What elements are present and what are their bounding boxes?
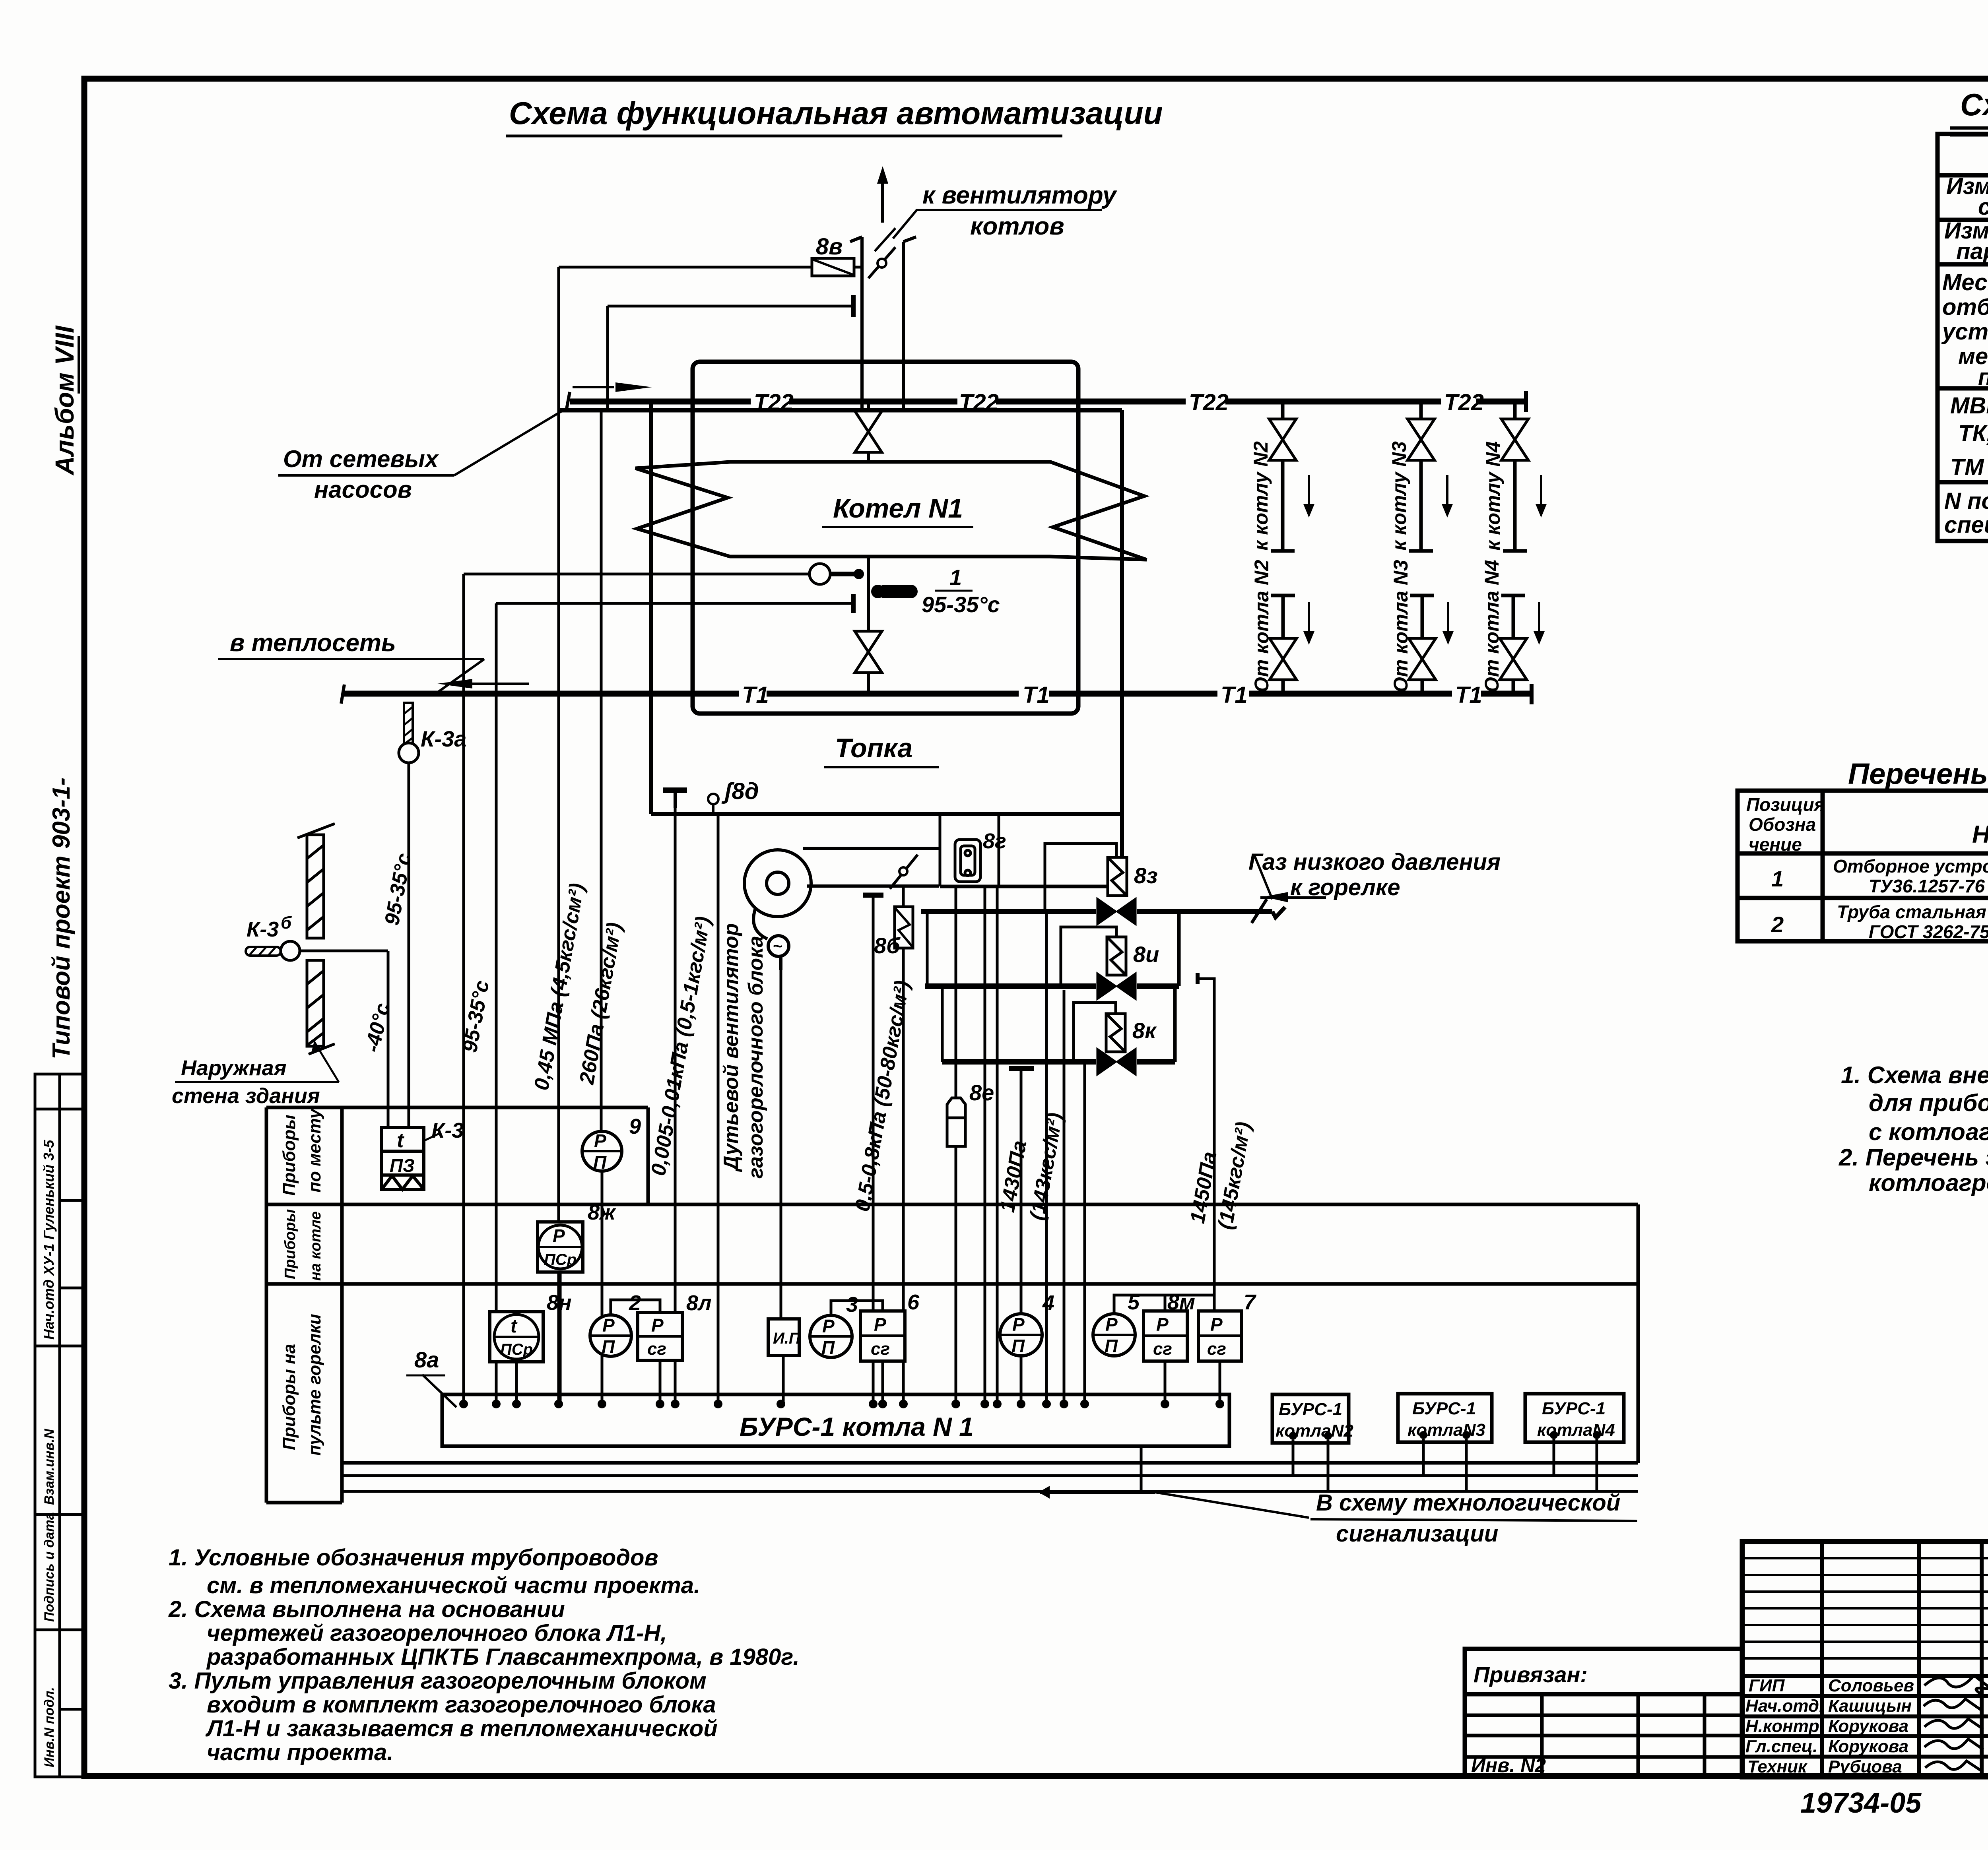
svg-text:Техник: Техник [1747, 1757, 1808, 1776]
svg-text:8а: 8а [414, 1347, 439, 1372]
svg-text:разработанных ЦПКТБ Главсанте: разработанных ЦПКТБ Главсантехпрома, в 1… [206, 1644, 800, 1670]
svg-text:Р: Р [1012, 1314, 1025, 1335]
svg-text:по месту: по месту [305, 1108, 324, 1193]
svg-text:ГИП: ГИП [1749, 1676, 1785, 1695]
svg-text:К-3: К-3 [431, 1119, 464, 1142]
svg-text:пульте горелки: пульте горелки [305, 1314, 324, 1456]
svg-text:сигнализации: сигнализации [1336, 1521, 1498, 1547]
svg-text:В схему технологической: В схему технологической [1316, 1490, 1620, 1516]
svg-text:2. Перечень элементов привед: 2. Перечень элементов приведен для одног… [1839, 1144, 1988, 1171]
svg-text:Нач.отд ХУ-1 Гуленький 3-5: Нач.отд ХУ-1 Гуленький 3-5 [41, 1140, 57, 1340]
svg-text:Р: Р [1105, 1314, 1118, 1335]
svg-text:8г: 8г [983, 829, 1006, 853]
svg-text:П: П [821, 1337, 835, 1358]
svg-text:газогорелочного блока: газогорелочного блока [744, 936, 767, 1179]
svg-text:Р: Р [1210, 1314, 1223, 1335]
svg-text:3: 3 [846, 1293, 858, 1317]
svg-text:Отборное устройство разрежения: Отборное устройство разрежения 20 [1833, 856, 1988, 877]
svg-text:Корукова: Корукова [1828, 1716, 1908, 1736]
svg-text:Гл.спец.: Гл.спец. [1745, 1737, 1817, 1756]
svg-text:Взам.инв.N: Взам.инв.N [42, 1428, 57, 1505]
svg-text:Т1: Т1 [1023, 682, 1050, 708]
svg-text:Перечень элементов: Перечень элементов [1848, 757, 1988, 790]
svg-text:Приборы на: Приборы на [280, 1344, 299, 1450]
svg-text:Схема внешних проводок: Схема внешних проводок [1960, 87, 1988, 122]
svg-text:~: ~ [773, 937, 783, 955]
svg-text:Инв.N подл.: Инв.N подл. [42, 1687, 57, 1767]
svg-text:к котлу N3: к котлу N3 [1388, 441, 1410, 551]
svg-text:см. в тепломеханической част: см. в тепломеханической части проекта. [207, 1573, 700, 1598]
svg-text:9: 9 [629, 1115, 641, 1138]
svg-text:8б: 8б [874, 933, 901, 958]
svg-text:БУРС-1: БУРС-1 [1542, 1399, 1606, 1418]
svg-text:б: б [281, 913, 292, 933]
svg-text:Р: Р [822, 1316, 835, 1336]
svg-text:Схема функциональная автоматиз: Схема функциональная автоматизации [509, 95, 1163, 131]
svg-text:котлаN4: котлаN4 [1537, 1420, 1615, 1440]
svg-text:N позиции по: N позиции по [1944, 488, 1988, 514]
svg-text:Н.контр.: Н.контр. [1745, 1716, 1824, 1736]
svg-text:сг: сг [1207, 1339, 1226, 1359]
svg-text:с котлоагрегатом.: с котлоагрегатом. [1869, 1119, 1988, 1145]
svg-text:ТУ36.1257-76 (ТК4-128-68): ТУ36.1257-76 (ТК4-128-68) [1869, 876, 1988, 896]
svg-text:ТК,: ТК, [1958, 421, 1988, 446]
svg-text:Рубцова: Рубцова [1828, 1757, 1902, 1776]
svg-text:8в: 8в [816, 234, 843, 260]
svg-text:2. Схема выполнена на основ: 2. Схема выполнена на основании [168, 1596, 565, 1622]
svg-text:в теплосеть: в теплосеть [230, 629, 396, 657]
svg-text:Наименование: Наименование [1972, 821, 1988, 848]
svg-text:Т22: Т22 [959, 390, 999, 415]
svg-text:От котла N3: От котла N3 [1390, 560, 1412, 692]
svg-text:для приборов, не поставляемых: для приборов, не поставляемых в комплект… [1869, 1090, 1988, 1116]
svg-text:От сетевых: От сетевых [283, 446, 439, 472]
svg-text:отборного: отборного [1942, 294, 1988, 320]
svg-text:стена здания: стена здания [172, 1084, 320, 1108]
svg-text:Р: Р [1156, 1314, 1169, 1335]
svg-text:Позиция: Позиция [1746, 794, 1825, 815]
svg-text:насосов: насосов [314, 476, 412, 503]
svg-text:Т1: Т1 [1221, 682, 1248, 708]
svg-text:Топка: Топка [835, 733, 912, 763]
svg-text:МВН,: МВН, [1950, 393, 1988, 419]
svg-text:Р: Р [651, 1315, 664, 1336]
svg-text:к горелке: к горелке [1290, 875, 1400, 900]
svg-text:Подпись и дата: Подпись и дата [42, 1512, 57, 1622]
svg-text:БУРС-1 котла N 1: БУРС-1 котла N 1 [740, 1412, 974, 1441]
svg-text:К-3а: К-3а [421, 726, 466, 751]
svg-text:7: 7 [1244, 1290, 1257, 1314]
svg-text:Инв. N2: Инв. N2 [1471, 1754, 1546, 1776]
svg-text:П: П [1105, 1336, 1118, 1356]
svg-text:От котла N4: От котла N4 [1481, 560, 1503, 692]
svg-text:Р: Р [602, 1315, 615, 1336]
svg-text:Место установки: Место установки [1942, 270, 1988, 295]
svg-text:ʃ8д: ʃ8д [721, 778, 759, 804]
svg-text:1: 1 [949, 565, 962, 590]
svg-text:Т1: Т1 [742, 682, 769, 708]
svg-text:части проекта.: части проекта. [207, 1739, 393, 1765]
svg-text:ГОСТ 3262-75: ГОСТ 3262-75 [1869, 921, 1988, 942]
svg-text:Наружная: Наружная [181, 1056, 287, 1080]
svg-text:параметр: параметр [1956, 239, 1988, 264]
svg-text:на котле: на котле [307, 1211, 324, 1281]
svg-text:Р: Р [553, 1226, 565, 1246]
svg-text:среда: среда [1978, 194, 1988, 220]
svg-text:8л: 8л [686, 1291, 712, 1315]
svg-text:Р: Р [874, 1314, 886, 1335]
svg-text:Приборы: Приборы [282, 1209, 299, 1279]
svg-text:К-3: К-3 [247, 917, 279, 941]
svg-text:Обозна: Обозна [1749, 814, 1816, 835]
svg-text:Приборы: Приборы [280, 1115, 299, 1196]
svg-text:Т1: Т1 [1455, 682, 1482, 708]
svg-text:чение: чение [1749, 834, 1802, 855]
svg-text:95-35°с: 95-35°с [922, 592, 1000, 617]
svg-text:сг: сг [1153, 1339, 1172, 1359]
svg-text:8и: 8и [1133, 942, 1159, 967]
svg-text:t: t [511, 1316, 518, 1337]
svg-text:Т22: Т22 [754, 390, 794, 415]
svg-text:входит в комплект газогорел: входит в комплект газогорелочного блока [207, 1692, 716, 1718]
svg-text:Корукова: Корукова [1828, 1737, 1908, 1756]
svg-text:устройства или: устройства или [1941, 319, 1988, 345]
svg-text:ПЗ: ПЗ [390, 1155, 415, 1176]
svg-text:П: П [593, 1152, 607, 1173]
svg-text:1. Схема внешних проводок в: 1. Схема внешних проводок выполнена [1841, 1062, 1988, 1088]
svg-text:чертежей газогорелочного бло: чертежей газогорелочного блока Л1-Н, [207, 1620, 667, 1646]
svg-text:8ж: 8ж [588, 1200, 617, 1224]
svg-text:сг: сг [871, 1339, 890, 1359]
svg-text:3. Пульт управления газогоре: 3. Пульт управления газогорелочным блоко… [169, 1668, 707, 1694]
svg-text:8е: 8е [969, 1080, 994, 1105]
svg-text:Котел N1: Котел N1 [833, 493, 963, 524]
svg-text:Привязан:: Привязан: [1474, 1662, 1588, 1687]
svg-text:Л1-Н и заказывается в тепл: Л1-Н и заказывается в тепломеханической [205, 1716, 718, 1741]
svg-text:спецификации: спецификации [1944, 512, 1988, 538]
svg-text:Нач.отд.: Нач.отд. [1745, 1696, 1824, 1716]
svg-text:сг: сг [647, 1339, 666, 1359]
svg-text:прибора: прибора [1978, 364, 1988, 390]
svg-text:Р: Р [594, 1131, 606, 1151]
svg-text:котлоагрегата.: котлоагрегата. [1869, 1169, 1988, 1196]
svg-text:1: 1 [1771, 866, 1784, 891]
svg-text:8з: 8з [1134, 863, 1158, 888]
svg-text:ПСр: ПСр [544, 1251, 577, 1268]
svg-text:ТМ: ТМ [1950, 454, 1984, 480]
svg-text:котлаN2: котлаN2 [1276, 1421, 1353, 1441]
svg-text:Типовой проект 903-1-: Типовой проект 903-1- [48, 778, 75, 1059]
svg-text:Газ низкого давления: Газ низкого давления [1248, 849, 1501, 875]
svg-text:к вентилятору: к вентилятору [922, 182, 1118, 209]
svg-text:П: П [1011, 1336, 1025, 1356]
svg-text:t: t [397, 1129, 405, 1152]
svg-text:Альбом VIII: Альбом VIII [50, 325, 79, 476]
svg-text:Т22: Т22 [1444, 390, 1484, 415]
svg-text:к котлу N2: к котлу N2 [1250, 441, 1272, 551]
svg-text:котлаN3: котлаN3 [1408, 1420, 1485, 1440]
svg-text:4: 4 [1042, 1291, 1054, 1315]
svg-text:6: 6 [907, 1290, 920, 1314]
svg-text:БУРС-1: БУРС-1 [1279, 1400, 1342, 1419]
svg-text:Дутьевой вентилятор: Дутьевой вентилятор [720, 923, 743, 1172]
svg-text:Соловьев: Соловьев [1828, 1676, 1914, 1695]
svg-text:От котла N2: От котла N2 [1250, 560, 1273, 692]
svg-text:БУРС-1: БУРС-1 [1412, 1399, 1476, 1418]
svg-text:ПСр: ПСр [500, 1341, 533, 1358]
svg-text:Кашицын: Кашицын [1828, 1696, 1912, 1716]
svg-text:19734-05: 19734-05 [1800, 1787, 1922, 1819]
svg-text:Т22: Т22 [1189, 390, 1229, 415]
svg-text:котлов: котлов [970, 213, 1064, 240]
svg-text:П: П [602, 1336, 615, 1357]
svg-text:1. Условные обозначения тру: 1. Условные обозначения трубопроводов [169, 1545, 658, 1571]
svg-text:Труба стальная Ду 20: Труба стальная Ду 20 [1837, 902, 1988, 922]
svg-text:8н: 8н [547, 1291, 572, 1315]
svg-text:2: 2 [1771, 912, 1784, 937]
svg-text:И.П: И.П [773, 1330, 801, 1347]
svg-text:8к: 8к [1132, 1018, 1157, 1043]
svg-text:к котлу N4: к котлу N4 [1482, 441, 1504, 551]
